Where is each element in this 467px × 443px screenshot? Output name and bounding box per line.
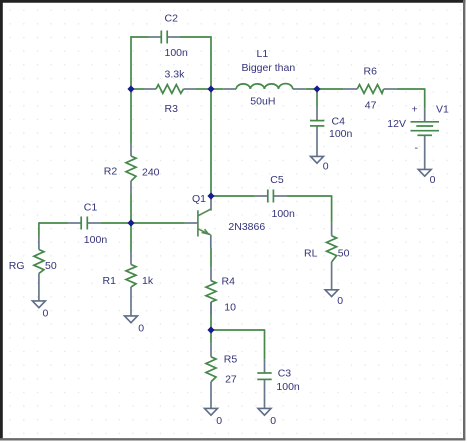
svg-text:100n: 100n — [84, 234, 108, 246]
svg-text:RG: RG — [9, 260, 25, 272]
svg-text:R3: R3 — [165, 103, 179, 115]
svg-text:+: + — [412, 103, 418, 115]
svg-text:C2: C2 — [165, 13, 179, 25]
svg-text:50uH: 50uH — [250, 96, 275, 108]
svg-text:27: 27 — [225, 374, 237, 386]
svg-text:100n: 100n — [329, 128, 353, 140]
svg-text:240: 240 — [142, 167, 160, 179]
svg-text:C3: C3 — [278, 367, 292, 379]
svg-text:2N3866: 2N3866 — [228, 221, 265, 233]
svg-text:0: 0 — [270, 415, 276, 427]
svg-text:R2: R2 — [104, 165, 118, 177]
svg-text:50: 50 — [338, 248, 350, 260]
svg-text:0: 0 — [337, 295, 343, 307]
svg-text:V1: V1 — [436, 103, 449, 115]
svg-text:100n: 100n — [272, 208, 296, 220]
svg-text:C4: C4 — [332, 115, 346, 127]
svg-text:3.3k: 3.3k — [165, 69, 186, 81]
svg-text:10: 10 — [224, 301, 236, 313]
svg-text:47: 47 — [365, 99, 377, 111]
svg-text:0: 0 — [430, 174, 436, 186]
svg-text:Bigger than: Bigger than — [242, 62, 296, 74]
svg-text:R1: R1 — [103, 275, 117, 287]
svg-text:L1: L1 — [257, 48, 269, 60]
svg-text:1k: 1k — [142, 275, 154, 287]
svg-text:0: 0 — [216, 415, 222, 427]
svg-text:0: 0 — [138, 323, 144, 335]
svg-text:0: 0 — [323, 160, 329, 172]
svg-text:100n: 100n — [276, 381, 300, 393]
svg-text:R5: R5 — [224, 354, 238, 366]
svg-text:RL: RL — [304, 248, 318, 260]
svg-text:-: - — [415, 142, 419, 154]
svg-text:C5: C5 — [270, 174, 284, 186]
svg-text:R6: R6 — [364, 66, 378, 78]
svg-text:Q1: Q1 — [192, 193, 206, 205]
svg-text:12V: 12V — [387, 118, 406, 130]
svg-text:C1: C1 — [84, 202, 98, 214]
svg-text:100n: 100n — [165, 47, 189, 59]
svg-text:0: 0 — [43, 308, 49, 320]
svg-text:50: 50 — [45, 260, 57, 272]
svg-text:R4: R4 — [222, 275, 236, 287]
